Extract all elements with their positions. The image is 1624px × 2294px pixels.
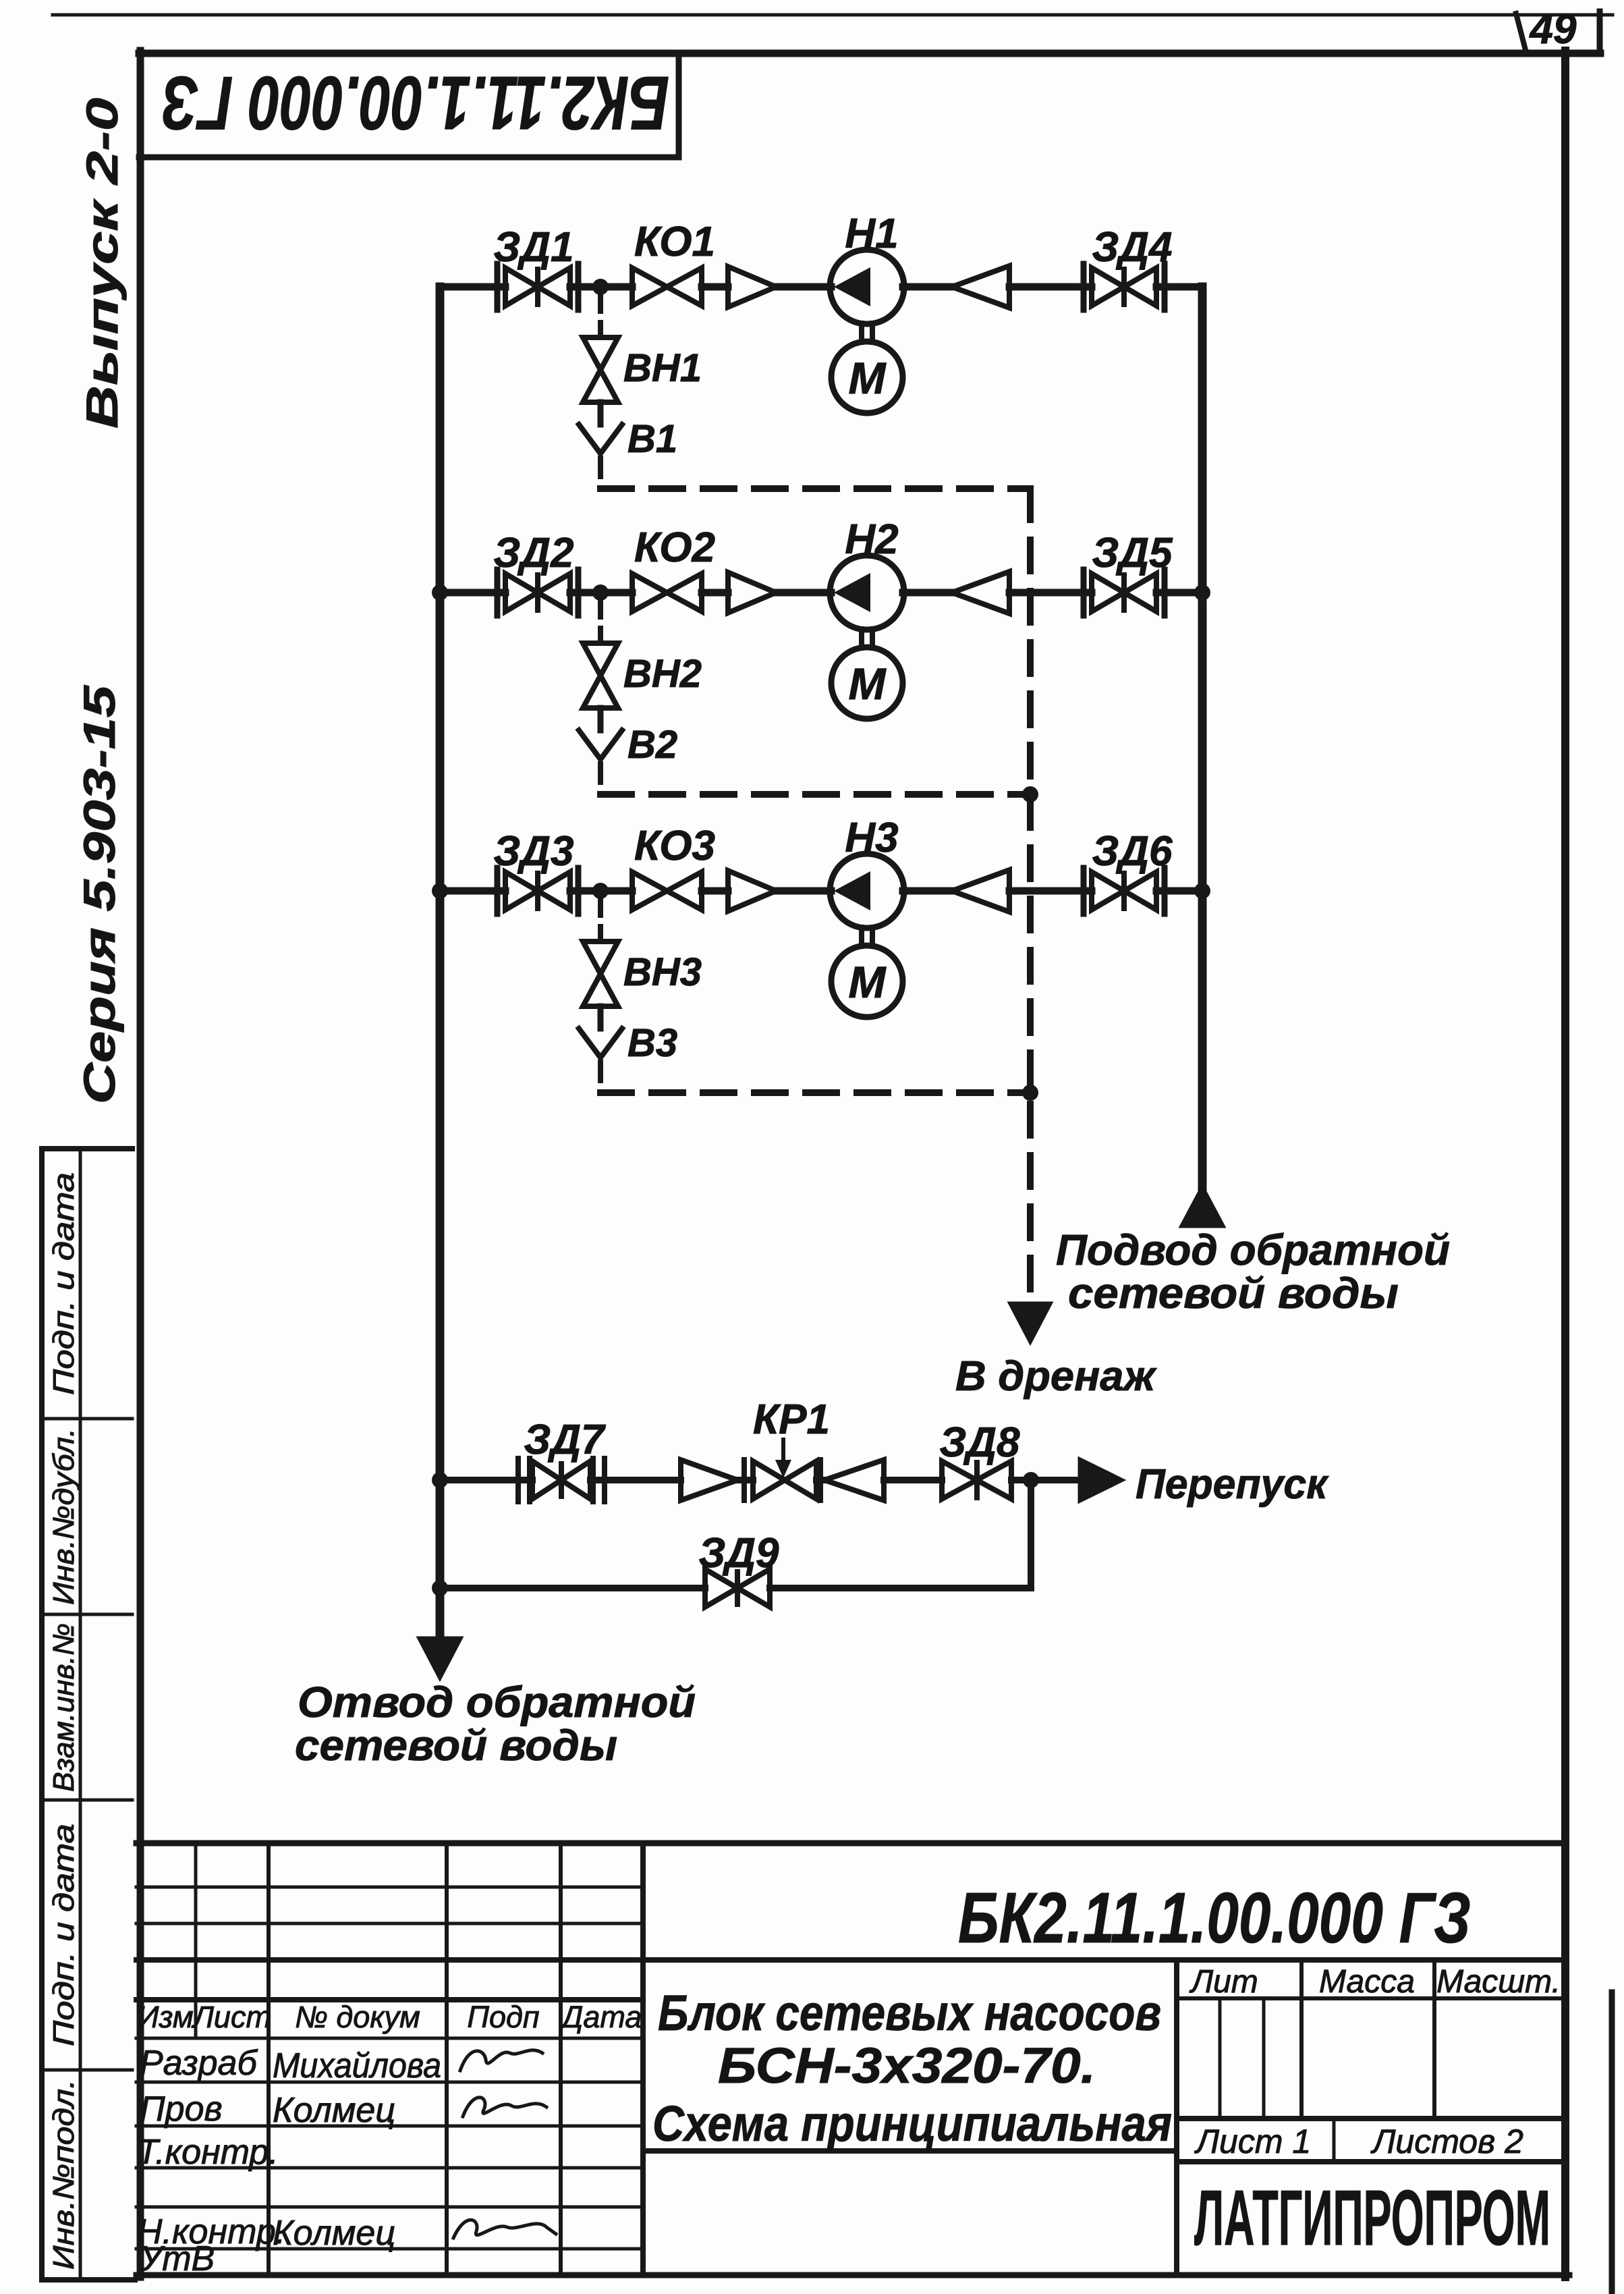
- side label Инв.№ подл.: [47, 2079, 80, 2270]
- gate valve ЗД9: [705, 1569, 770, 1607]
- drain stub 1 (dashed): [598, 294, 603, 337]
- label ВН3: [623, 950, 702, 994]
- gate valve ЗД1: [497, 264, 578, 310]
- Лит Масса Масшт labels: [1189, 1964, 1561, 2000]
- organization ЛАТГИПРОПРОМ: [1194, 2174, 1550, 2262]
- signature Пров: [463, 2098, 547, 2117]
- bypass outlet drop pipe: [1028, 1480, 1034, 1588]
- label КР1: [753, 1396, 830, 1443]
- svg-text:Отвод обратной: Отвод обратной: [298, 1678, 696, 1726]
- motor M2: [831, 647, 903, 719]
- svg-text:Инв.№дубл.: Инв.№дубл.: [47, 1428, 80, 1605]
- Лит header bottom line: [1177, 1996, 1565, 2000]
- title block major vertical divider: [640, 1843, 646, 2275]
- drain stub 2 (dashed): [598, 599, 603, 643]
- pump Н2: [830, 555, 904, 630]
- label сетевой воды (left): [295, 1721, 617, 1770]
- drain manifold run 1 (dashed): [600, 485, 1030, 492]
- side label Подп. и дата (lower): [47, 1824, 80, 2046]
- svg-text:БК2.11.1.00.000 ГЗ: БК2.11.1.00.000 ГЗ: [162, 61, 669, 145]
- gate valve ЗД5: [1084, 570, 1165, 616]
- side label Взам. инв.№: [47, 1623, 80, 1792]
- svg-text:Дата: Дата: [559, 2000, 642, 2034]
- svg-text:Н3: Н3: [845, 815, 898, 861]
- frame bottom line: [136, 2272, 1569, 2278]
- drain connector 1: [598, 402, 604, 425]
- node return header branch 2: [1194, 584, 1210, 601]
- check valve КО1: [632, 268, 702, 306]
- svg-text:ВН3: ВН3: [623, 950, 702, 994]
- return header pipe (right vertical): [1198, 287, 1207, 1188]
- svg-text:ЗД7: ЗД7: [524, 1417, 606, 1463]
- svg-text:Лист: Лист: [191, 2000, 271, 2034]
- frame left line: [137, 51, 144, 2277]
- pump shaft 3: [862, 927, 872, 946]
- bypass pipe (перепуск line): [440, 1477, 1079, 1483]
- label ЗД8: [939, 1419, 1020, 1466]
- label ЗД7: [524, 1417, 606, 1463]
- control valve КР1: [681, 1460, 884, 1500]
- svg-text:Масшт.: Масшт.: [1436, 1964, 1561, 2000]
- Лист 1 Листов 2 labels: [1194, 2123, 1523, 2160]
- svg-text:Блок сетевых насосов: Блок сетевых насосов: [658, 1985, 1161, 2041]
- gate valve ЗД6: [1084, 868, 1165, 914]
- discharge reducer 1: [952, 266, 1009, 308]
- side label Подп. и дата (upper): [47, 1172, 80, 1395]
- svg-text:ЗД9: ЗД9: [698, 1530, 779, 1577]
- svg-text:ВН2: ВН2: [623, 652, 702, 696]
- Лит subcell dividers: [1220, 1998, 1264, 2119]
- label КО2: [634, 524, 715, 571]
- title text line 3: [652, 2096, 1172, 2152]
- svg-text:ЗД1: ЗД1: [493, 224, 573, 271]
- pump Н3: [830, 854, 904, 928]
- svg-text:Пров: Пров: [140, 2090, 223, 2129]
- svg-text:Подп. и дата: Подп. и дата: [47, 1824, 80, 2046]
- drain manifold run 2 (dashed): [600, 791, 1030, 798]
- side column box: [42, 1149, 135, 2280]
- drain manifold run 3 (dashed): [600, 1089, 1030, 1096]
- side label Инв.№ дубл.: [47, 1428, 80, 1605]
- title block horizontal lines left table: [136, 1887, 643, 1923]
- document designation box top-left: [139, 53, 679, 157]
- motor M3: [831, 946, 903, 1017]
- svg-text:сетевой воды: сетевой воды: [295, 1721, 617, 1770]
- vent valve ВН1: [583, 337, 618, 402]
- motor M1: [831, 342, 903, 413]
- label Подвод обратной: [1056, 1226, 1450, 1274]
- svg-text:Разраб: Разраб: [140, 2044, 258, 2083]
- scan artifact right edge bottom: [1609, 1992, 1615, 2294]
- svg-text:Схема принципиальная: Схема принципиальная: [652, 2096, 1172, 2152]
- staff row Пров Колмец: [140, 2090, 395, 2130]
- svg-text:Перепуск: Перепуск: [1136, 1461, 1329, 1508]
- node drain tap 1: [592, 279, 609, 295]
- node suction header branch 2: [432, 584, 448, 601]
- page corner vertical near 49: [1597, 11, 1603, 51]
- node drain tap 2: [592, 584, 609, 601]
- right section vertical divider: [1174, 1960, 1179, 2275]
- Лист/Листов divider: [1333, 2119, 1336, 2162]
- label ЗД6: [1092, 828, 1173, 875]
- svg-text:Листов 2: Листов 2: [1370, 2123, 1523, 2160]
- svg-text:Михайлова: Михайлова: [273, 2046, 441, 2085]
- funnel В2: [579, 730, 622, 759]
- node bypass outlet junction: [1023, 1472, 1039, 1488]
- header row labels: [137, 2000, 642, 2034]
- svg-text:Н2: Н2: [845, 516, 898, 563]
- designation text БК2.11.1.00.000 ГЗ: [958, 1878, 1471, 1958]
- label КО3: [634, 823, 715, 869]
- page top edge line: [53, 13, 1613, 17]
- node bypass tap on header: [432, 1472, 448, 1488]
- title block top line: [136, 1840, 1565, 1847]
- vent valve ВН2: [583, 643, 618, 708]
- gate valve ЗД7: [518, 1458, 605, 1502]
- funnel outlet dash 3: [598, 1062, 603, 1093]
- arrow to drain: [1009, 1303, 1052, 1344]
- margin note Серия 5.903-15: [74, 684, 124, 1104]
- control valve КР1 actuator arrow: [775, 1440, 791, 1478]
- label ВН2: [623, 652, 702, 696]
- page number tick: [1516, 13, 1525, 50]
- svg-text:Лист 1: Лист 1: [1194, 2123, 1311, 2160]
- mirrored designation text: [162, 61, 669, 145]
- svg-text:Выпуск 2-0: Выпуск 2-0: [77, 98, 127, 429]
- svg-text:ЗД6: ЗД6: [1092, 828, 1173, 875]
- svg-text:УтВ: УтВ: [139, 2239, 215, 2278]
- svg-text:ЗД4: ЗД4: [1092, 224, 1172, 271]
- pump shaft 2: [862, 629, 872, 648]
- arrow outlet bottom left: [418, 1637, 462, 1680]
- svg-text:ЗД3: ЗД3: [493, 828, 573, 875]
- svg-text:В1: В1: [627, 417, 677, 461]
- node drain tap 3: [592, 883, 609, 899]
- staff row Н.контр Колмец: [137, 2212, 395, 2253]
- arrow перепуск: [1079, 1458, 1124, 1502]
- check valve КО2: [632, 574, 702, 611]
- drain manifold junction node 3: [1022, 1085, 1038, 1101]
- label Н3: [845, 815, 898, 861]
- label ЗД9: [698, 1530, 779, 1577]
- frame top line: [139, 50, 1600, 57]
- svg-text:ЗД2: ЗД2: [493, 530, 573, 576]
- suction reducer 3: [728, 871, 776, 911]
- svg-text:В2: В2: [627, 723, 677, 767]
- side column cell lines: [42, 1419, 132, 2070]
- svg-text:В3: В3: [627, 1021, 677, 1065]
- funnel outlet dash 1: [598, 458, 603, 489]
- title block staff row lines: [136, 2082, 643, 2249]
- side column divider: [79, 1149, 82, 2280]
- pump shaft 1: [862, 323, 872, 342]
- svg-text:КО2: КО2: [634, 524, 715, 571]
- label Н1: [845, 211, 898, 257]
- svg-text:КО1: КО1: [634, 219, 715, 265]
- svg-text:Подп: Подп: [467, 2000, 539, 2034]
- staff row Т.контр: [137, 2133, 279, 2172]
- svg-text:Колмец: Колмец: [273, 2091, 395, 2130]
- svg-text:Взам.инв.№: Взам.инв.№: [47, 1623, 80, 1792]
- node suction header branch 3: [432, 883, 448, 899]
- frame right line: [1561, 51, 1569, 2277]
- label ЗД3: [493, 828, 573, 875]
- staff row Утв: [139, 2239, 215, 2278]
- svg-text:КО3: КО3: [634, 823, 715, 869]
- svg-text:Подп. и дата: Подп. и дата: [47, 1172, 80, 1395]
- funnel В1: [579, 425, 622, 454]
- svg-text:БК2.11.1.00.000 ГЗ: БК2.11.1.00.000 ГЗ: [958, 1878, 1471, 1958]
- drain manifold junction node 2: [1022, 786, 1038, 802]
- svg-text:Колмец: Колмец: [273, 2214, 395, 2253]
- pump Н1: [830, 250, 904, 324]
- svg-text:ЗД5: ЗД5: [1092, 530, 1173, 576]
- bypass return pipe ЗД9 run: [440, 1585, 1031, 1591]
- svg-text:М: М: [849, 353, 887, 403]
- pipe branch 2: [440, 589, 1202, 597]
- svg-text:Изм: Изм: [137, 2000, 193, 2034]
- label В2: [627, 723, 677, 767]
- svg-text:Инв.№подл.: Инв.№подл.: [47, 2079, 80, 2270]
- drain manifold vertical (dashed): [1027, 489, 1034, 1303]
- Лит/Масса/Масшт dividers: [1301, 1960, 1434, 2119]
- Лист row lines: [1177, 2119, 1565, 2162]
- funnel В3: [579, 1029, 622, 1058]
- page number 49: [1529, 6, 1577, 53]
- gate valve ЗД8: [942, 1461, 1011, 1499]
- label ЗД4: [1092, 224, 1172, 271]
- title text line 2: [718, 2038, 1096, 2094]
- label ЗД2: [493, 530, 573, 576]
- staff row Разраб Михайлова: [140, 2044, 441, 2085]
- label ЗД1: [493, 224, 573, 271]
- pipe branch 3: [440, 887, 1202, 895]
- label Н2: [845, 516, 898, 563]
- svg-text:ЛАТГИПРОПРОМ: ЛАТГИПРОПРОМ: [1194, 2174, 1550, 2262]
- gate valve ЗД3: [497, 868, 578, 914]
- title block vertical dividers: [269, 1843, 561, 2275]
- signature Н.контр: [453, 2220, 556, 2238]
- drain stub 3 (dashed): [598, 898, 603, 941]
- svg-text:М: М: [849, 659, 887, 709]
- label КО1: [634, 219, 715, 265]
- svg-text:БСН-3х320-70.: БСН-3х320-70.: [718, 2038, 1096, 2094]
- node return header branch 3: [1194, 883, 1210, 899]
- svg-text:В дренаж: В дренаж: [955, 1353, 1157, 1400]
- label ЗД5: [1092, 530, 1173, 576]
- title text cell bottom line: [643, 2148, 1177, 2154]
- suction header pipe (left vertical): [436, 287, 445, 1637]
- label сетевой воды (right): [1068, 1269, 1399, 1317]
- svg-text:ВН1: ВН1: [623, 346, 702, 390]
- gate valve ЗД2: [497, 570, 578, 616]
- node ЗД9 tap on header: [432, 1580, 448, 1596]
- arrow inlet right header: [1180, 1185, 1225, 1227]
- label В дренаж: [955, 1353, 1157, 1400]
- pipe branch 1: [440, 283, 1202, 291]
- label Отвод обратной: [298, 1678, 696, 1726]
- svg-text:Масса: Масса: [1319, 1964, 1415, 2000]
- margin note Выпуск 2-0: [77, 98, 127, 429]
- label В1: [627, 417, 677, 461]
- svg-text:Н1: Н1: [845, 211, 898, 257]
- signature Разраб: [460, 2050, 542, 2071]
- svg-text:Серия 5.903-15: Серия 5.903-15: [74, 684, 124, 1104]
- svg-text:Подвод обратной: Подвод обратной: [1056, 1226, 1450, 1274]
- title block header row lines: [136, 2000, 643, 2038]
- label ВН1: [623, 346, 702, 390]
- discharge reducer 3: [952, 870, 1009, 912]
- title block vertical Изм/Лист divider: [194, 1843, 198, 2038]
- gate valve ЗД4: [1084, 264, 1165, 310]
- suction reducer 2: [728, 572, 776, 613]
- drain connector 3: [598, 1006, 604, 1029]
- svg-text:сетевой воды: сетевой воды: [1068, 1269, 1399, 1317]
- vent valve ВН3: [583, 941, 618, 1006]
- check valve КО3: [632, 872, 702, 910]
- funnel outlet dash 2: [598, 764, 603, 794]
- discharge reducer 2: [952, 572, 1009, 613]
- svg-text:49: 49: [1529, 6, 1577, 53]
- title text line 1: [658, 1985, 1161, 2041]
- svg-text:КР1: КР1: [753, 1396, 830, 1443]
- svg-text:№ докум: № докум: [295, 2000, 420, 2034]
- drain connector 2: [598, 708, 604, 730]
- svg-text:ЗД8: ЗД8: [939, 1419, 1020, 1466]
- svg-text:М: М: [849, 957, 887, 1007]
- svg-text:Т.контр.: Т.контр.: [137, 2133, 279, 2172]
- suction reducer 1: [728, 267, 776, 307]
- svg-text:Лит: Лит: [1189, 1964, 1258, 2000]
- label Перепуск: [1136, 1461, 1329, 1508]
- label В3: [627, 1021, 677, 1065]
- title block line under designation cell: [136, 1957, 1565, 1963]
